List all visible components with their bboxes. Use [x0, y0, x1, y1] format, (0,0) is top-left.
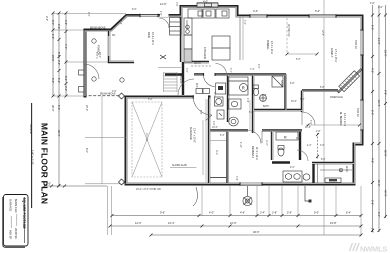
svg-text:UTIL: UTIL: [213, 92, 215, 98]
den deck door opening: [160, 14, 169, 17]
svg-text:8'-6": 8'-6": [132, 9, 137, 11]
master bath fixtures: [283, 171, 310, 182]
svg-text:6'-4": 6'-4": [346, 211, 351, 215]
svg-text:12'-0 x 11'-6: 12'-0 x 11'-6: [270, 41, 273, 54]
svg-text:2'-6": 2'-6": [212, 121, 214, 126]
svg-text:2'-6": 2'-6": [257, 64, 259, 69]
svg-text:6'-0" x: 6'-0" x: [95, 52, 97, 59]
svg-text:24 x 48: 24 x 48: [145, 133, 148, 142]
svg-text:1/4" = 1'-0": 1/4" = 1'-0": [31, 150, 35, 165]
furnace + wh: [215, 97, 225, 119]
svg-text:12'-4": 12'-4": [377, 100, 381, 107]
bath1 door opening in hall wall: [204, 73, 215, 77]
svg-text:6'-0": 6'-0": [57, 105, 61, 110]
svg-text:12'-8": 12'-8": [321, 30, 323, 36]
svg-text:5'-6": 5'-6": [287, 211, 292, 215]
svg-text:28'-0": 28'-0": [51, 105, 55, 112]
svg-text:13'-0 x 14'-6: 13'-0 x 14'-6: [343, 113, 346, 127]
svg-text:9'-2": 9'-2": [57, 24, 61, 29]
svg-text:BATH: BATH: [263, 105, 269, 108]
left dim texts: [45, 16, 68, 137]
bottom dim texts: [46, 182, 351, 235]
bath2 fixtures: shower, sink, toilet: [253, 76, 283, 101]
svg-text:2'-4": 2'-4": [246, 98, 248, 103]
svg-text:14'-0": 14'-0": [377, 38, 381, 45]
svg-text:2'-0": 2'-0": [159, 11, 161, 16]
svg-text:8'-4": 8'-4": [57, 52, 61, 57]
svg-text:5'-6": 5'-6": [371, 200, 375, 205]
svg-text:3'-1": 3'-1": [229, 68, 231, 73]
svg-text:11'-2": 11'-2": [377, 180, 381, 186]
utility door jamb cabs: [196, 89, 210, 94]
svg-text:5'-8": 5'-8": [300, 99, 305, 101]
bottom extension lines: [108, 186, 362, 236]
svg-text:12'-4": 12'-4": [168, 221, 175, 225]
svg-text:5'-4": 5'-4": [220, 135, 225, 137]
fireplace: [339, 71, 360, 92]
svg-text:BEDRM 2: BEDRM 2: [251, 146, 255, 158]
svg-text:5'-8": 5'-8": [320, 87, 325, 89]
window caps: [140, 14, 364, 186]
svg-text:4'-2": 4'-2": [307, 145, 312, 147]
svg-text:NWMLS: NWMLS: [360, 245, 387, 253]
svg-text:5'-0": 5'-0": [249, 112, 254, 114]
svg-text:MAIN FLR.: MAIN FLR.: [14, 199, 18, 213]
svg-text:2'-10": 2'-10": [239, 142, 241, 148]
svg-text:3'-0": 3'-0": [112, 91, 117, 93]
svg-text:5'-0": 5'-0": [148, 99, 153, 101]
utility base cab: [216, 83, 226, 94]
coat closet with rod: [229, 77, 249, 95]
svg-text:SHWR: SHWR: [280, 80, 282, 87]
svg-text:DN: DN: [112, 35, 116, 37]
svg-text:5'-8": 5'-8": [296, 59, 301, 61]
svg-text:6'-0": 6'-0": [87, 12, 89, 17]
svg-text:8'-2": 8'-2": [64, 76, 68, 81]
master dim line: [206, 99, 360, 182]
svg-text:R: R: [242, 86, 245, 91]
svg-text:46'-0": 46'-0": [253, 230, 260, 234]
svg-text:W/D: W/D: [195, 83, 197, 88]
hall bath fixtures: [229, 99, 242, 126]
svg-text:2'-8": 2'-8": [272, 211, 277, 215]
svg-text:4'-0": 4'-0": [209, 211, 214, 215]
den window: [108, 36, 110, 56]
svg-text:2048 SF.: 2048 SF.: [14, 228, 18, 240]
svg-text:4'-2": 4'-2": [371, 68, 375, 73]
svg-text:2'-0": 2'-0": [46, 182, 51, 186]
bay bump nook: [197, 3, 218, 7]
svg-text:17'-4 x 15'-2: 17'-4 x 15'-2: [334, 49, 337, 63]
scattered tiny dim texts: [87, 12, 325, 147]
top dims: [197, 0, 324, 235]
kitchen west counter: [184, 18, 192, 35]
svg-text:2'-0": 2'-0": [45, 16, 49, 21]
svg-text:ARCH: ARCH: [194, 62, 201, 65]
svg-text:21'-4" x 23'-8": 21'-4" x 23'-8": [193, 128, 196, 143]
INTERIOR WALLS grey: [110, 17, 354, 183]
svg-text:5'-0": 5'-0": [371, 25, 375, 30]
left dim extension lines: [53, 14, 126, 97]
svg-text:2'-0": 2'-0": [64, 86, 68, 91]
svg-text:FAMILY: FAMILY: [330, 48, 334, 58]
svg-text:5'-0": 5'-0": [51, 78, 55, 83]
svg-text:12'-6": 12'-6": [160, 2, 167, 6]
svg-text:CLO: CLO: [215, 150, 217, 155]
bottom dim lines: [44, 186, 361, 235]
svg-text:7'-2": 7'-2": [250, 69, 255, 71]
svg-text:5040 XO: 5040 XO: [354, 40, 356, 49]
svg-text:9'-8": 9'-8": [384, 90, 388, 95]
interior dim lines: [203, 17, 317, 175]
svg-text:2'-4": 2'-4": [260, 211, 265, 215]
svg-text:4 RISERS: 4 RISERS: [179, 73, 181, 84]
extra speck texts: [95, 2, 358, 191]
right dim lines: [373, 5, 386, 232]
svg-text:6'-2": 6'-2": [51, 34, 55, 39]
kitchen cabinets top row: [184, 9, 230, 62]
svg-text:4'-4": 4'-4": [119, 20, 121, 25]
square footage table: [3, 195, 28, 248]
svg-text:GARAGE: GARAGE: [189, 127, 193, 140]
svg-text:26'-6": 26'-6": [384, 150, 388, 157]
svg-text:3'-6": 3'-6": [320, 145, 325, 147]
downspout mark: [305, 186, 310, 201]
walkway left of garage: [85, 96, 126, 184]
stairs risers: [158, 68, 181, 93]
svg-text:12'-0": 12'-0": [135, 221, 142, 225]
svg-text:968 SF.: 968 SF.: [9, 230, 13, 240]
svg-text:3'-0": 3'-0": [309, 120, 311, 125]
svg-text:5'-4": 5'-4": [377, 212, 381, 217]
svg-text:40'-0": 40'-0": [384, 190, 388, 197]
svg-text:8'-0": 8'-0": [51, 20, 55, 25]
svg-text:1'-0": 1'-0": [370, 2, 375, 5]
EXTERIOR WALLS grey pass: [85, 7, 361, 183]
recessed wall line: [209, 177, 227, 179]
svg-text:4'-0": 4'-0": [253, 9, 258, 13]
EXTERIOR WALLS dark pass: [85, 7, 362, 185]
svg-text:KITCHEN: KITCHEN: [203, 47, 207, 59]
svg-text:5040 XO: 5040 XO: [356, 108, 358, 117]
svg-text:SLOPE SLAB: SLOPE SLAB: [172, 164, 187, 167]
svg-text:15'-8": 15'-8": [330, 221, 337, 225]
svg-text:SQUARE FOOTAGE: SQUARE FOOTAGE: [22, 198, 26, 230]
svg-text:9'-4": 9'-4": [290, 167, 295, 169]
svg-text:11'-0 x 11'-6: 11'-0 x 11'-6: [255, 147, 258, 160]
windows (light segments with caps): [140, 16, 362, 185]
wc room: [276, 132, 298, 156]
svg-text:MAIN FLOOR PLAN: MAIN FLOOR PLAN: [40, 123, 50, 204]
svg-text:W.I.C.: W.I.C.: [345, 166, 348, 173]
svg-text:4'-6": 4'-6": [64, 20, 68, 25]
pantry shelves: [170, 18, 182, 36]
wic closet rods: [318, 133, 353, 183]
svg-text:4'-8": 4'-8": [371, 158, 375, 163]
porch beam line: [84, 95, 126, 97]
garage arc leader: [193, 187, 197, 206]
svg-text:4'-2": 4'-2": [296, 138, 301, 140]
svg-text:7'-4": 7'-4": [64, 44, 68, 49]
svg-text:(2) 5040 XO: (2) 5040 XO: [287, 24, 289, 37]
svg-text:BEAM ABOVE: BEAM ABOVE: [90, 27, 106, 30]
svg-text:7'-2": 7'-2": [243, 20, 245, 25]
porch step rects: [79, 70, 85, 92]
title rule: [31, 103, 33, 208]
svg-text:FIREPLACE: FIREPLACE: [330, 96, 343, 99]
svg-text:10'-6 x 11'-0: 10'-6 x 11'-0: [151, 32, 154, 45]
svg-text:3'-6": 3'-6": [175, 2, 177, 7]
INTERIOR WALLS dark: [109, 17, 354, 183]
svg-text:15'-0": 15'-0": [291, 101, 297, 103]
left dim ticks: [52, 12, 68, 188]
svg-text:6'-2": 6'-2": [57, 78, 61, 83]
svg-text:11'-6": 11'-6": [265, 140, 267, 146]
svg-text:SCALE: SCALE: [29, 124, 33, 134]
left dim line 1: [53, 13, 66, 186]
svg-text:12'-8": 12'-8": [305, 127, 311, 129]
svg-text:4'-6": 4'-6": [240, 211, 245, 215]
svg-text:21'-0": 21'-0": [384, 50, 388, 57]
svg-text:6'-0": 6'-0": [371, 110, 375, 115]
svg-text:28'-0": 28'-0": [98, 52, 100, 58]
right dim ticks: [371, 14, 387, 233]
bottom dim ticks: [43, 185, 363, 237]
svg-text:M. BEDRM: M. BEDRM: [339, 112, 343, 126]
svg-text:GARAGE: GARAGE: [9, 199, 13, 211]
door arcs: [84, 18, 315, 161]
nook peninsula: [239, 17, 241, 60]
svg-text:3'-0": 3'-0": [185, 68, 187, 73]
svg-text:24'-6": 24'-6": [51, 55, 55, 62]
garage X floor: [132, 102, 162, 177]
svg-text:9'-0": 9'-0": [314, 211, 319, 215]
svg-text:DEN: DEN: [147, 32, 151, 38]
svg-text:R: R: [284, 136, 287, 140]
svg-text:8'-0": 8'-0": [85, 148, 88, 153]
svg-text:2'-8": 2'-8": [316, 131, 321, 133]
svg-text:2'-0": 2'-0": [378, 6, 383, 9]
svg-text:2'-8": 2'-8": [199, 110, 201, 115]
bed2 closet shelf: [210, 140, 226, 142]
garage man-door opening: [194, 95, 208, 99]
bottom wall column + marker: [243, 186, 252, 206]
svg-text:2'-8": 2'-8": [262, 95, 267, 97]
svg-text:3'-4": 3'-4": [235, 176, 237, 181]
fireplace diagonal wall: [338, 69, 362, 93]
svg-text:6'-8": 6'-8": [290, 83, 295, 85]
svg-text:3'-6": 3'-6": [57, 60, 61, 65]
svg-text:PANTRY: PANTRY: [185, 20, 188, 30]
porch columns: [92, 39, 124, 82]
svg-text:8'-0": 8'-0": [321, 159, 326, 161]
right dim texts: [370, 2, 388, 233]
svg-text:10'-0": 10'-0": [212, 127, 218, 129]
svg-text:16'-0": 16'-0": [230, 221, 237, 225]
watermark NWMLS: [350, 243, 388, 253]
svg-text:5'-0": 5'-0": [315, 9, 320, 13]
garage corner diamonds: [119, 93, 125, 185]
svg-text:9'-6": 9'-6": [160, 211, 165, 215]
svg-text:22'-0": 22'-0": [85, 105, 88, 111]
svg-text:16'-0" x 8'-0" OVHD. DR.: 16'-0" x 8'-0" OVHD. DR.: [136, 189, 162, 191]
svg-text:DINING: DINING: [266, 40, 270, 49]
svg-text:2'-6": 2'-6": [371, 228, 375, 233]
